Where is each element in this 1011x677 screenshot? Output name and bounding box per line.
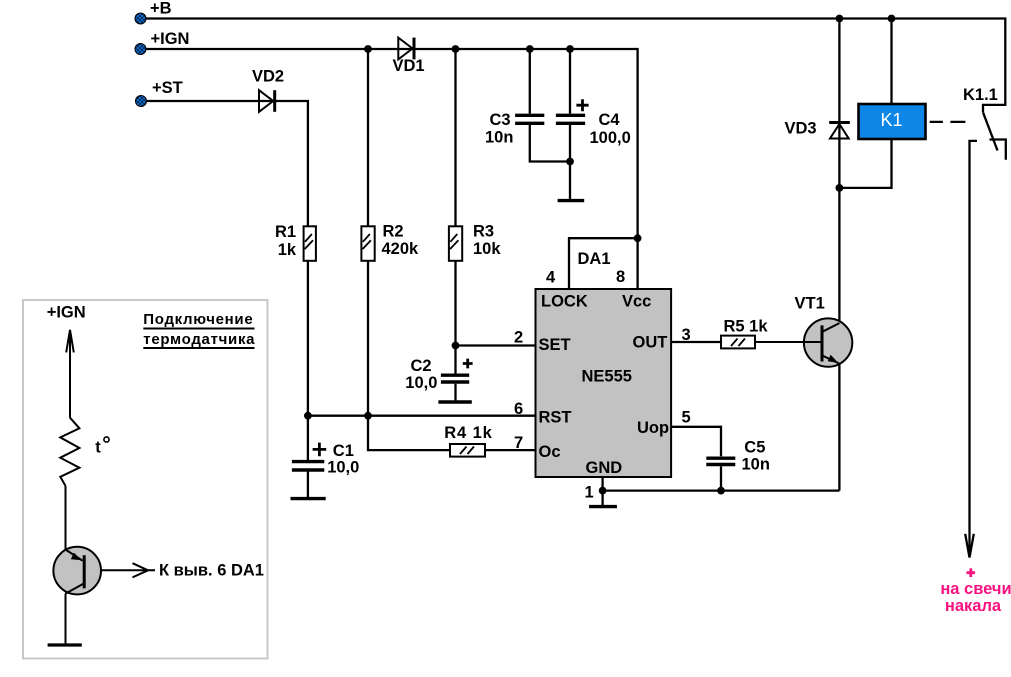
svg-text:RST: RST [539, 409, 572, 427]
svg-text:накала: накала [945, 597, 1002, 615]
svg-text:Подключение: Подключение [143, 311, 253, 328]
svg-text:OUT: OUT [633, 334, 668, 352]
svg-text:t: t [95, 439, 101, 457]
svg-text:R4 1k: R4 1k [444, 424, 493, 442]
svg-text:100,0: 100,0 [590, 129, 631, 147]
svg-text:1: 1 [585, 484, 594, 502]
svg-text:4: 4 [546, 269, 556, 287]
svg-text:K1: K1 [880, 110, 902, 130]
svg-text:C3: C3 [490, 111, 511, 129]
svg-text:SET: SET [539, 336, 571, 354]
svg-text:C1: C1 [333, 442, 354, 460]
svg-text:2: 2 [514, 328, 523, 346]
svg-text:DA1: DA1 [578, 250, 611, 268]
svg-text:10,0: 10,0 [405, 374, 437, 392]
svg-text:10k: 10k [473, 240, 501, 258]
svg-text:R5 1k: R5 1k [724, 318, 769, 336]
svg-text:К выв. 6 DA1: К выв. 6 DA1 [159, 562, 264, 580]
svg-text:+B: +B [150, 0, 172, 18]
svg-text:1k: 1k [278, 241, 297, 259]
svg-text:10n: 10n [742, 456, 770, 474]
svg-text:5: 5 [682, 409, 691, 427]
svg-text:на свечи: на свечи [940, 580, 1011, 598]
svg-text:VT1: VT1 [795, 295, 825, 313]
svg-text:R2: R2 [383, 223, 404, 241]
svg-text:+ST: +ST [152, 79, 183, 97]
svg-text:+IGN: +IGN [47, 304, 86, 322]
svg-text:Uop: Uop [637, 419, 669, 437]
svg-text:8: 8 [616, 268, 625, 286]
svg-text:R1: R1 [275, 223, 296, 241]
svg-text:420k: 420k [382, 240, 420, 258]
svg-text:Vcc: Vcc [622, 293, 651, 311]
svg-text:C4: C4 [599, 111, 621, 129]
svg-text:Oc: Oc [539, 443, 561, 461]
svg-text:C2: C2 [411, 357, 432, 375]
svg-text:NE555: NE555 [582, 368, 632, 386]
svg-text:10,0: 10,0 [327, 459, 359, 477]
svg-text:6: 6 [514, 400, 523, 418]
svg-text:VD1: VD1 [393, 57, 425, 75]
svg-text:7: 7 [514, 434, 523, 452]
svg-text:R3: R3 [473, 223, 494, 241]
svg-text:K1.1: K1.1 [963, 86, 998, 104]
svg-text:+IGN: +IGN [151, 30, 190, 48]
svg-text:10n: 10n [485, 129, 513, 147]
svg-text:VD2: VD2 [252, 68, 284, 86]
svg-text:термодатчика: термодатчика [143, 331, 255, 348]
svg-text:C5: C5 [744, 439, 765, 457]
svg-text:GND: GND [586, 459, 623, 477]
svg-text:VD3: VD3 [785, 119, 817, 137]
svg-text:LOCK: LOCK [541, 293, 588, 311]
svg-text:3: 3 [682, 326, 691, 344]
